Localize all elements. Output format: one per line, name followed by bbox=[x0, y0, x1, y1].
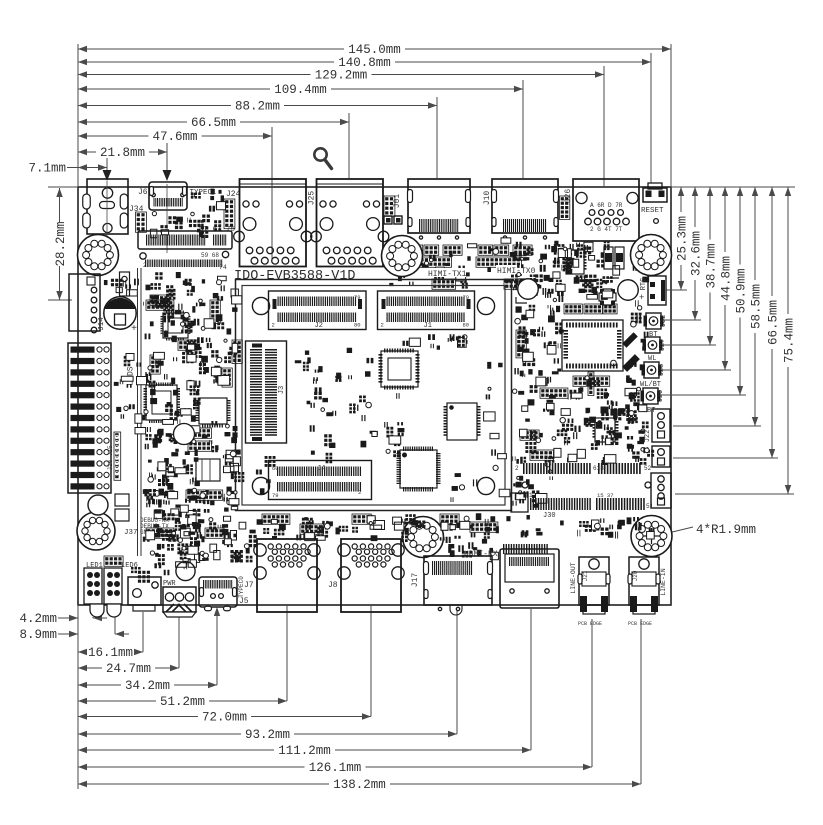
audio jack bottom-left bbox=[128, 577, 161, 605]
diagonal components near antenna connectors bbox=[622, 332, 638, 348]
through hole above PWR bbox=[176, 561, 195, 580]
dimension 138.2mm bottom bbox=[78, 783, 329, 785]
headers above WiFi module bbox=[564, 304, 582, 314]
svg-text:J16 J15: J16 J15 bbox=[107, 445, 114, 471]
through hole circle left-center bbox=[174, 424, 195, 445]
svg-text:74: 74 bbox=[219, 264, 227, 271]
svg-text:PCB EDGE: PCB EDGE bbox=[578, 621, 602, 627]
dimension 109.4mm top bbox=[78, 88, 270, 90]
board-to-board connector J3 (vertical) bbox=[246, 341, 287, 443]
IC U6 QFN small (top) bbox=[161, 311, 191, 341]
extension line 47.6mm bbox=[271, 127, 273, 261]
dimension 47.6mm top bbox=[78, 135, 148, 137]
svg-text:J34: J34 bbox=[129, 205, 144, 214]
dimension 34.2mm bottom bbox=[78, 684, 121, 686]
connector J22 (fan header) bbox=[652, 409, 670, 442]
svg-text:1: 1 bbox=[529, 492, 533, 499]
svg-text:51: 51 bbox=[646, 503, 654, 510]
extension line bottom x=93 bbox=[92, 617, 94, 618]
SMD texture bottom strip bbox=[146, 513, 257, 565]
dimension 28.2mm left bbox=[59, 188, 61, 222]
dimension 75.4mm right bbox=[787, 187, 789, 314]
SOM module outline outer bbox=[236, 280, 512, 511]
connector USB3.0 bottom bbox=[500, 549, 559, 608]
dimension 32.6mm right bbox=[694, 187, 696, 227]
connector RTC (battery) bbox=[648, 276, 666, 305]
dimension 140.8mm top bbox=[78, 61, 334, 63]
svg-text:+: + bbox=[639, 293, 644, 303]
svg-text:J3: J3 bbox=[278, 386, 286, 394]
svg-text:J32: J32 bbox=[660, 315, 668, 328]
pin header J15 bbox=[114, 432, 121, 480]
svg-text:79: 79 bbox=[272, 492, 279, 499]
LVDS connector block bbox=[68, 343, 111, 493]
SOM mounting hole bottom-left bbox=[252, 477, 269, 494]
connector USB top-left (dual USB) bbox=[87, 179, 128, 234]
svg-text:LINE-IN: LINE-IN bbox=[660, 568, 667, 595]
dimension 38.7mm right bbox=[709, 187, 711, 239]
dimension 145.0mm top bbox=[78, 48, 344, 50]
mounting hole top-right bbox=[631, 235, 672, 276]
connector right edge 3 bbox=[651, 473, 671, 508]
svg-text:J21: J21 bbox=[582, 570, 589, 581]
connector HDMI top bbox=[492, 179, 558, 233]
components below J01 bbox=[384, 216, 392, 224]
IC U8 SOIC right-mid bbox=[593, 418, 619, 442]
pin headers below HDMI TX0 bbox=[478, 245, 493, 255]
svg-text:J22: J22 bbox=[644, 430, 652, 443]
connector J26 RJ45 top-right bbox=[573, 179, 639, 241]
pin header rows left-center bbox=[188, 428, 212, 438]
extension line bottom x=371 bbox=[370, 606, 372, 717]
svg-text:145.0mm: 145.0mm bbox=[348, 43, 401, 57]
edge pad comb row (2..52) bbox=[523, 463, 591, 474]
extension line 75.4mm bbox=[675, 493, 794, 495]
connector J14 bbox=[69, 274, 100, 331]
small holes next to comb bbox=[522, 482, 528, 488]
svg-text:44.8mm: 44.8mm bbox=[720, 256, 734, 301]
extension line 32.6mm bbox=[661, 319, 701, 321]
svg-text:A 6R D 7R: A 6R D 7R bbox=[590, 202, 623, 209]
svg-text:J20: J20 bbox=[632, 570, 639, 581]
svg-text:HIMI-TX1: HIMI-TX1 bbox=[428, 270, 467, 279]
antenna connector J27 bbox=[643, 337, 663, 353]
svg-text:79: 79 bbox=[354, 294, 361, 301]
svg-text:2: 2 bbox=[272, 322, 275, 329]
SMD cluster below HDMI TX0 bbox=[487, 248, 547, 295]
SMD cluster below mPCIe bbox=[146, 272, 225, 300]
dimension 126.1mm bottom bbox=[78, 766, 305, 768]
svg-text:75.4mm: 75.4mm bbox=[783, 318, 797, 363]
svg-text:618: 618 bbox=[593, 465, 604, 472]
IC U1 QFN with pin ring (SOM) bbox=[379, 349, 420, 390]
routed slot lines left of SOM bbox=[137, 268, 139, 556]
svg-text:8.9mm: 8.9mm bbox=[19, 628, 57, 642]
SMD cluster below TypeC bbox=[160, 215, 221, 239]
svg-text:LED1: LED1 bbox=[86, 562, 103, 570]
svg-text:28.2mm: 28.2mm bbox=[54, 221, 68, 266]
connector J20 audio jack bbox=[629, 557, 659, 605]
test point circle below RESET bbox=[654, 219, 659, 224]
svg-text:J6: J6 bbox=[138, 188, 148, 197]
mounting hole top-left bbox=[78, 235, 119, 276]
extension line 109.4mm bbox=[522, 80, 524, 178]
svg-text:79: 79 bbox=[463, 294, 470, 301]
svg-text:72.0mm: 72.0mm bbox=[202, 711, 247, 725]
IC U2 QFP (SOM CPU) bbox=[397, 447, 441, 492]
dimension 129.2mm top bbox=[78, 74, 311, 76]
svg-text:J17: J17 bbox=[411, 573, 420, 588]
svg-text:34.2mm: 34.2mm bbox=[125, 679, 170, 693]
antenna connector J32 bbox=[644, 313, 664, 329]
svg-text:51.2mm: 51.2mm bbox=[160, 695, 205, 709]
connector J5 Type-C bottom bbox=[199, 577, 237, 607]
LED lens 1 bbox=[90, 604, 104, 617]
svg-text:J7: J7 bbox=[244, 581, 254, 590]
IC U4 QFN left region bbox=[144, 383, 181, 424]
svg-text:50.9mm: 50.9mm bbox=[735, 268, 749, 313]
svg-text:66.5mm: 66.5mm bbox=[767, 300, 781, 345]
RESET button bbox=[648, 183, 662, 189]
dimension 21.8mm top bbox=[78, 151, 96, 153]
svg-text:2 G 4T 7T: 2 G 4T 7T bbox=[590, 226, 623, 233]
board-to-board connector J4 bbox=[269, 461, 372, 500]
fiducial circle left redraw bbox=[518, 279, 538, 299]
connector HDMI top bbox=[408, 179, 470, 233]
svg-text:32.6mm: 32.6mm bbox=[690, 231, 704, 276]
extension arrow 34.2mm up at board edge bbox=[214, 607, 220, 616]
dimension 66.5mm right bbox=[771, 187, 773, 296]
corner bracket marks bbox=[516, 278, 619, 303]
leader 7.1mm with arrow onto USB bbox=[106, 158, 108, 174]
dimension 44.8mm right bbox=[724, 187, 726, 252]
SOM mounting hole bottom-right bbox=[477, 477, 494, 494]
svg-text:93.2mm: 93.2mm bbox=[245, 728, 290, 742]
svg-text:25.3mm: 25.3mm bbox=[676, 216, 690, 261]
dimension 111.2mm bottom bbox=[78, 749, 274, 751]
svg-text:LED6: LED6 bbox=[121, 562, 138, 570]
svg-text:RTC: RTC bbox=[640, 278, 648, 291]
SMD cluster below HDMI TX1 bbox=[409, 244, 471, 288]
extension line 145.0mm right edge bbox=[670, 44, 672, 187]
SOM module outline inner bbox=[242, 286, 505, 506]
svg-text:J24: J24 bbox=[226, 190, 241, 199]
svg-text:58.5mm: 58.5mm bbox=[750, 284, 764, 329]
svg-text:38.7mm: 38.7mm bbox=[705, 243, 719, 288]
connector J37 pads bbox=[115, 494, 129, 506]
card edge comb row bbox=[140, 253, 146, 259]
pin headers below HDMI TX1 bbox=[408, 245, 423, 255]
FPC connector J36 comb bbox=[503, 544, 548, 554]
tall pad right of J14 bbox=[120, 272, 130, 296]
SMD cluster near J14 bbox=[104, 279, 139, 289]
svg-text:16.1mm: 16.1mm bbox=[88, 646, 133, 660]
fan hole bottom-middle bbox=[403, 517, 444, 558]
svg-text:J1: J1 bbox=[424, 322, 432, 330]
SOM mounting hole top-left bbox=[252, 297, 269, 314]
SOM mounting hole top-right bbox=[477, 297, 494, 314]
extension line 28.2mm top bbox=[48, 186, 78, 188]
svg-text:111.2mm: 111.2mm bbox=[278, 744, 331, 758]
antenna connector J29 bbox=[641, 388, 661, 404]
svg-text:RESET: RESET bbox=[641, 207, 664, 215]
extension line bottom x=641 bbox=[640, 619, 642, 784]
dimension 24.7mm bottom bbox=[78, 667, 102, 669]
dimension 93.2mm bottom bbox=[78, 733, 241, 735]
SMD cluster above bottom-left connectors bbox=[131, 562, 187, 583]
extension line bottom x=531 bbox=[530, 609, 532, 750]
svg-text:J27: J27 bbox=[659, 339, 667, 352]
svg-text:J8: J8 bbox=[328, 581, 338, 590]
pin header strips left-center bbox=[146, 300, 174, 310]
svg-text:4*R1.9mm: 4*R1.9mm bbox=[696, 523, 756, 537]
svg-text:24.7mm: 24.7mm bbox=[106, 662, 151, 676]
svg-text:HIMI-TX0: HIMI-TX0 bbox=[497, 267, 536, 276]
header above LEDs bbox=[104, 556, 123, 566]
dimension 51.2mm bottom bbox=[78, 700, 156, 702]
svg-text:52: 52 bbox=[644, 465, 652, 472]
extension line 66.5mm bbox=[348, 113, 350, 178]
connector J7 RJ45 bottom bbox=[257, 539, 317, 612]
svg-text:4.2mm: 4.2mm bbox=[19, 612, 57, 626]
svg-text:47.6mm: 47.6mm bbox=[152, 130, 197, 144]
svg-text:J28: J28 bbox=[658, 364, 666, 377]
extension line 25.3mm bbox=[666, 289, 687, 291]
svg-text:BT: BT bbox=[647, 407, 655, 415]
IC U5 QFP left region bbox=[196, 398, 231, 428]
extension line 50.9mm bbox=[659, 394, 746, 396]
LED lens 2 bbox=[107, 604, 121, 617]
mounting hole bottom-left bbox=[77, 512, 115, 550]
connector RJ45 top bbox=[240, 179, 307, 267]
extension line 44.8mm bbox=[659, 369, 731, 371]
svg-text:+: + bbox=[131, 324, 137, 335]
dimension 66.5mm top bbox=[78, 121, 187, 123]
svg-text:LINE-OUT: LINE-OUT bbox=[570, 562, 577, 593]
svg-text:J26: J26 bbox=[564, 189, 573, 204]
magnifier icon bbox=[314, 148, 331, 168]
wire 7.1mm center line through USB bbox=[106, 181, 108, 253]
through hole circle left-center redraw bbox=[174, 424, 195, 445]
extension line bottom x=115 bbox=[114, 617, 116, 634]
connector J8 RJ45 bottom bbox=[341, 539, 401, 612]
pin header strips bottom strip bbox=[262, 514, 290, 524]
svg-text:7.1mm: 7.1mm bbox=[28, 162, 66, 176]
leader 4*R1.9mm to mounting hole bbox=[664, 527, 693, 534]
svg-text:J25: J25 bbox=[308, 191, 317, 206]
antenna connector J28 bbox=[642, 362, 662, 378]
svg-text:59 68: 59 68 bbox=[201, 252, 219, 259]
connector J21 audio jack bbox=[579, 557, 609, 605]
board-to-board connector J1 bbox=[378, 291, 475, 330]
extension line 66.5mm bbox=[673, 457, 778, 459]
SMD cluster SOM interior bbox=[295, 351, 374, 394]
SMD cluster right of TypeC bbox=[191, 189, 224, 212]
fiducial circle right redraw bbox=[618, 280, 638, 300]
mPCIe socket connector bbox=[138, 231, 232, 249]
dimension 25.3mm right bbox=[680, 187, 682, 212]
fiducial circle left (right region) bbox=[518, 279, 538, 299]
extension line 129.2mm bbox=[603, 66, 605, 187]
svg-text:66.5mm: 66.5mm bbox=[191, 116, 236, 130]
board-to-board connector J2 bbox=[269, 291, 367, 330]
electrolytic capacitor C1 bbox=[104, 297, 136, 329]
extension line 88.2mm bbox=[436, 97, 438, 178]
svg-text:88.2mm: 88.2mm bbox=[235, 100, 280, 114]
dimension 88.2mm top bbox=[78, 105, 231, 107]
pin header strips right region bbox=[516, 330, 526, 358]
dimension 16.1mm bottom bbox=[78, 651, 84, 653]
IC U3 SOIC (SOM) bbox=[444, 403, 481, 440]
connector J25 top bbox=[317, 179, 384, 267]
svg-text:J10: J10 bbox=[483, 191, 492, 206]
dimension 58.5mm right bbox=[754, 187, 756, 280]
svg-text:2: 2 bbox=[143, 262, 147, 269]
svg-text:80: 80 bbox=[354, 322, 361, 329]
fan hole top-middle bbox=[382, 236, 423, 277]
svg-text:2: 2 bbox=[381, 322, 384, 329]
svg-text:J29: J29 bbox=[657, 390, 665, 403]
transistor pack left-center bbox=[196, 459, 220, 481]
dimension 50.9mm right bbox=[739, 187, 741, 264]
extension line 58.5mm bbox=[673, 425, 761, 427]
svg-text:109.4mm: 109.4mm bbox=[274, 83, 327, 97]
extension line bottom x=457 bbox=[456, 611, 458, 734]
fiducial circle right (RTC hole) bbox=[618, 280, 638, 300]
extension line bottom x=217 bbox=[216, 609, 218, 685]
pin header between HDMI and J26 bbox=[560, 196, 570, 220]
svg-text:J4: J4 bbox=[317, 465, 325, 473]
leader 21.8mm with arrow onto TypeC bbox=[166, 143, 168, 174]
IC U7 SOIC right-top bbox=[564, 250, 587, 274]
capacitor pair right-top bbox=[604, 247, 613, 269]
SMD texture left-center region bbox=[143, 293, 237, 388]
label HIMI-TX1 bbox=[427, 268, 466, 277]
extension line bottom x=287 bbox=[286, 606, 288, 701]
PCB board outline bbox=[78, 187, 671, 605]
svg-text:129.2mm: 129.2mm bbox=[315, 69, 368, 83]
extension line bottom x=179 bbox=[178, 616, 180, 668]
mounting hole bottom-right (4*R1.9mm) bbox=[631, 516, 672, 557]
extension line 140.8mm bbox=[650, 53, 652, 183]
top dimension extension line left bbox=[77, 44, 79, 187]
cross-shaped component bbox=[599, 289, 616, 305]
FPC connector J30 bbox=[511, 493, 528, 512]
connector right edge 2 bbox=[652, 446, 670, 467]
top reference extension line right bbox=[671, 186, 795, 188]
svg-text:IDO-EVB3588-V1D: IDO-EVB3588-V1D bbox=[234, 269, 356, 284]
through hole left bottom bbox=[88, 495, 108, 515]
svg-text:57 67 75: 57 67 75 bbox=[199, 226, 236, 234]
svg-text:126.1mm: 126.1mm bbox=[309, 761, 362, 775]
extension line bottom x=143 bbox=[142, 612, 144, 652]
extension line 28.2mm bottom bbox=[48, 299, 72, 301]
SMD cluster below J26 bbox=[549, 243, 651, 283]
WiFi module footprint bbox=[562, 320, 623, 371]
connector J6 Type-C top bbox=[149, 182, 187, 210]
SMD texture right region bbox=[512, 305, 567, 464]
extension line 38.7mm bbox=[661, 344, 716, 346]
svg-text:80: 80 bbox=[463, 322, 470, 329]
SMD cluster between RJ45 and HDMI bbox=[389, 243, 405, 286]
svg-text:PCB EDGE: PCB EDGE bbox=[628, 621, 652, 627]
extension line bottom x=592 bbox=[591, 619, 593, 767]
label HIMI-TX0 bbox=[496, 265, 535, 274]
svg-text:2: 2 bbox=[515, 465, 519, 472]
svg-text:138.2mm: 138.2mm bbox=[333, 778, 386, 792]
svg-text:J2: J2 bbox=[315, 322, 323, 330]
svg-text:J37: J37 bbox=[124, 529, 138, 537]
svg-text:15 37: 15 37 bbox=[597, 492, 614, 499]
dimension 72.0mm bottom bbox=[78, 716, 198, 718]
bottom dimension extension line left bbox=[77, 605, 79, 789]
svg-text:2: 2 bbox=[358, 489, 361, 496]
svg-text:J30: J30 bbox=[543, 512, 556, 520]
